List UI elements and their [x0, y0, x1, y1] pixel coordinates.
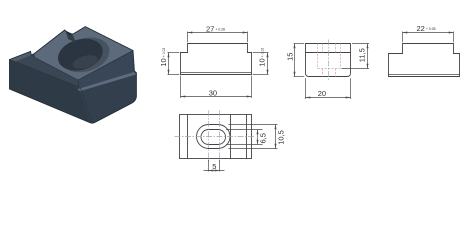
- svg-text:+ 0.02: + 0.02: [260, 48, 264, 58]
- hidden counterbore bottom: [318, 68, 341, 70]
- base right portion below ledge: [80, 75, 136, 123]
- svg-text:15: 15: [285, 53, 294, 61]
- svg-text:5: 5: [212, 162, 216, 171]
- svg-text:30: 30: [209, 89, 217, 98]
- dimension 5: [208, 160, 210, 172]
- dimension 10 +0.02 left: [168, 52, 180, 54]
- crease edges: [10, 51, 134, 122]
- dimension 20: [305, 78, 307, 99]
- left corner step ledge: [10, 51, 32, 61]
- top block left end sliver: [31, 54, 35, 58]
- svg-text:+ 0.02: + 0.02: [162, 48, 166, 58]
- svg-text:+ 0.05: + 0.05: [426, 27, 436, 31]
- front-right zone (top block right face): [78, 51, 137, 90]
- svg-text:22: 22: [417, 24, 425, 33]
- side view outline with rounded bottom corners: [306, 44, 351, 77]
- left step edge: [187, 115, 189, 159]
- svg-text:27: 27: [206, 25, 214, 34]
- inner slot obround: [201, 130, 225, 145]
- dimension 22 +0.05: [402, 32, 404, 43]
- vertical centerline right arc: [219, 111, 221, 163]
- hidden slot narrow left: [322, 44, 324, 53]
- svg-text:20: 20: [318, 89, 326, 98]
- right ledge light band: [78, 72, 137, 91]
- top view: [175, 111, 286, 172]
- svg-text:11,5: 11,5: [358, 48, 367, 62]
- dimension 11.5: [352, 43, 369, 45]
- right step edge: [246, 115, 248, 159]
- front view outline: [181, 44, 252, 75]
- dimension 27 +0.28: [187, 32, 189, 43]
- svg-text:10: 10: [258, 58, 267, 66]
- svg-text:+ 0.28: + 0.28: [215, 27, 225, 31]
- side view: [285, 40, 369, 100]
- svg-text:10: 10: [159, 58, 168, 66]
- step edge line: [306, 52, 351, 54]
- svg-text:10,5: 10,5: [277, 130, 286, 145]
- 3D isometric view of T-slot part: [10, 27, 137, 124]
- hidden counterbore wide right: [340, 44, 342, 69]
- chamfer tangent line: [389, 74, 460, 76]
- dimension 10.5: [229, 124, 278, 126]
- slot tangent edge: [230, 115, 232, 159]
- centerline: [328, 40, 330, 81]
- chamfer tangent line: [181, 72, 252, 74]
- notch inner wall: [65, 30, 74, 35]
- counterbore recess ellipse: [54, 32, 113, 78]
- slot channel into recess: [65, 31, 76, 43]
- profile outline: [389, 44, 460, 77]
- svg-text:6,5: 6,5: [259, 133, 268, 143]
- dimension 10 +0.02 right: [253, 52, 269, 54]
- far right profile view: [389, 24, 460, 77]
- top block front-left face (mid tone): [15, 55, 79, 87]
- hidden slot narrow right: [335, 44, 337, 53]
- top view outline: [180, 115, 252, 159]
- horizontal centerline: [175, 136, 256, 138]
- dimension 6.5: [226, 129, 263, 131]
- hidden counterbore wide left: [317, 44, 319, 69]
- top face: [34, 27, 133, 80]
- outer counterbore obround: [197, 125, 231, 149]
- dimension 15: [294, 43, 305, 45]
- vertical centerline left arc: [208, 111, 210, 163]
- silhouette base fill (dark base front face): [10, 27, 137, 124]
- dimension 30: [180, 76, 182, 98]
- silhouette outline: [10, 27, 137, 124]
- front view: [159, 25, 268, 98]
